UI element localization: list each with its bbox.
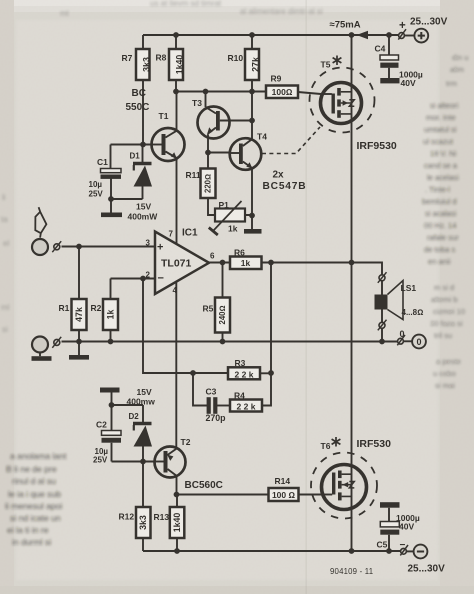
- speaker LS1: [381, 281, 383, 342]
- wire: feedback right branch: [262, 263, 271, 406]
- wire: -V bottom rail: [143, 550, 400, 552]
- resistor R4: [230, 400, 262, 412]
- transistor T2: [155, 447, 186, 478]
- resistor R6: [230, 257, 262, 270]
- schematic group: [32, 29, 429, 559]
- capacitor C2: [111, 393, 113, 462]
- resistor R14: [269, 488, 299, 501]
- input jack lower: [32, 337, 48, 353]
- zener diode D1: [142, 145, 144, 200]
- dashed thermal coupling T4 to T5: [262, 127, 320, 154]
- resistor R7: [142, 35, 144, 145]
- wire: feedback left branch: [143, 279, 228, 406]
- wire: pin4 down to T2 emitter: [175, 283, 177, 449]
- wire + node: C1/D1 ground junction: [111, 199, 143, 213]
- node: T3 base to T4 collector line: [249, 118, 255, 124]
- ground below R1 node: [78, 342, 80, 356]
- wire: C2 bottom to T2 base node: [112, 461, 155, 463]
- mosfet T6: [322, 465, 367, 510]
- page crease: [306, 0, 307, 594]
- wire: pin2: [111, 278, 156, 280]
- wire: R9 to T5 gate: [298, 92, 321, 94]
- capacitor C4: [388, 35, 390, 78]
- plug upper: [54, 244, 60, 250]
- mosfet T5: [321, 83, 362, 124]
- wire: T1 emitter down to IC1 pin7: [176, 158, 178, 244]
- resistor R13: [176, 495, 178, 552]
- wire: base node R7/C1/D1/T1: [111, 144, 152, 146]
- capacitor C5: [388, 508, 390, 551]
- labels group: [59, 17, 448, 576]
- transistor T1: [152, 128, 185, 161]
- current-direction arrow on rail: [357, 31, 369, 39]
- wire: main vertical rail through T5 to output: [351, 35, 353, 263]
- node + wire: T3 emitter / R11 / T4 base: [205, 150, 211, 156]
- mosfet T6 heatsink dashed circle: [311, 453, 377, 519]
- wire: T3 emitter down: [207, 135, 209, 153]
- resistor R12: [142, 462, 144, 552]
- capacitor C3: [207, 397, 211, 414]
- resistor R1: [78, 247, 80, 342]
- wire: T3 base to T4 collector line: [220, 120, 252, 122]
- - supply terminal circle: [407, 550, 414, 552]
- ground below C1: [101, 213, 122, 218]
- node: T5 source junction: [349, 32, 355, 38]
- 0V output terminal: [398, 338, 404, 344]
- node: R10 top junction: [249, 32, 255, 38]
- wire: T4 emitter down to P1 node: [251, 168, 253, 216]
- plug lower: [54, 339, 60, 345]
- resistor R8: [175, 35, 177, 92]
- input jack upper: [32, 239, 48, 255]
- wire: +V top rail: [143, 34, 401, 36]
- ground bar above C2: [100, 388, 120, 393]
- ground bar of C4: [380, 78, 399, 83]
- + supply terminal circle: [405, 35, 415, 37]
- wire: T2 collector down to R13/R14 node: [176, 476, 178, 495]
- potentiometer P1: [215, 209, 245, 222]
- transistor T3: [198, 107, 230, 139]
- wire: main vertical through T6 to -V rail: [351, 263, 353, 552]
- ground bar of C5: [380, 502, 400, 508]
- wire+node: T2 collector / R13 / R14: [177, 494, 269, 496]
- wire: T3 collector up: [205, 92, 207, 108]
- node: C4 junction: [386, 32, 392, 38]
- zener diode D2: [142, 405, 144, 462]
- wire: pin3 input: [62, 246, 156, 248]
- resistor R3: [228, 367, 260, 379]
- transistor T4: [230, 138, 262, 170]
- capacitor C1: [110, 145, 113, 200]
- resistor R10: [251, 35, 253, 139]
- resistor R11: [208, 153, 215, 216]
- ground below lower jack: [39, 353, 41, 357]
- wire: bias node R8/T3/R10/R9: [176, 91, 266, 93]
- node: R8 top junction: [173, 32, 179, 38]
- ground at P1: [244, 229, 262, 234]
- resistor R2: [110, 279, 112, 342]
- speaker LS1 terminals: [379, 275, 385, 281]
- input arrow symbol: [35, 207, 46, 237]
- - supply terminal plug: [401, 548, 407, 554]
- wire: output row: [209, 263, 382, 275]
- + supply terminal plug: [399, 34, 401, 36]
- wire: 0V rail: [62, 341, 398, 343]
- resistor R9: [266, 86, 298, 99]
- mosfet T5 heatsink dashed circle: [310, 68, 375, 133]
- opamp IC1 TL071: [155, 232, 209, 295]
- resistor R5: [222, 263, 224, 342]
- wire: T1 collector up to R8 node: [176, 92, 178, 131]
- wire+node: P1 right / T4 emitter / ground: [245, 215, 252, 229]
